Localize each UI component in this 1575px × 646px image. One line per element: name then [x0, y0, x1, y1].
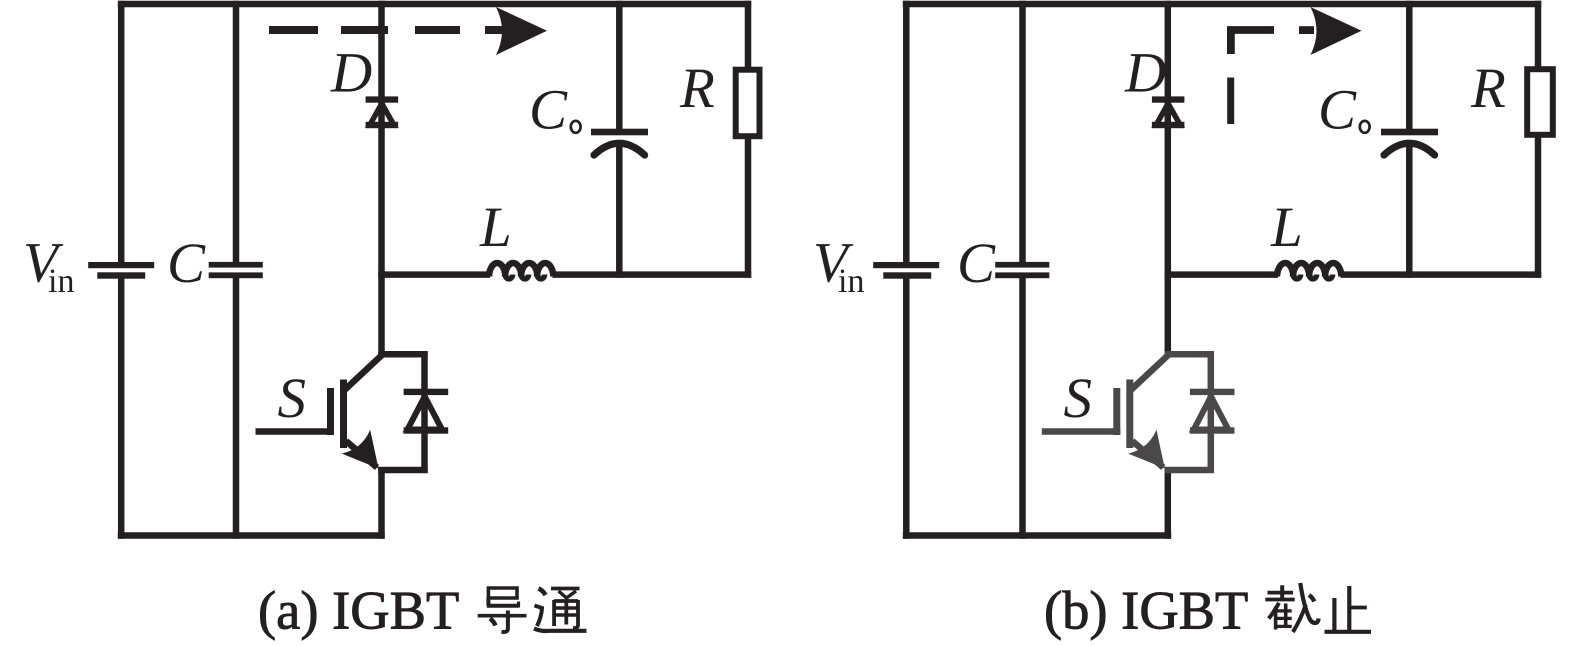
svg-text:D: D — [330, 42, 372, 105]
resistor R (b) — [1527, 69, 1553, 135]
wire: circuit (b) left edge lower (Vin branch) — [903, 277, 910, 539]
IGBT S (a) antiparallel diode triangle — [408, 397, 443, 430]
svg-text:C: C — [167, 232, 206, 295]
inductor L (b) coil — [1277, 263, 1341, 277]
svg-text:C: C — [957, 232, 996, 295]
current path dashed arrow (a) dash 3 — [415, 26, 460, 34]
capacitor C (a) top plate — [209, 262, 263, 268]
inductor L (b) curl 3 — [1325, 275, 1332, 279]
IGBT S (b) emitter diagonal — [1132, 441, 1163, 468]
inductor L (b) curl 1 — [1293, 275, 1300, 279]
caption (b) hanzi jie — [1265, 583, 1318, 632]
inductor L (b) curl 2 — [1309, 275, 1316, 279]
svg-text:C: C — [529, 79, 568, 142]
battery Vin (a) top long plate — [88, 262, 154, 268]
capacitor Co (b) straight plate — [1381, 129, 1438, 136]
current path dashed arrow (a) dash 2 — [341, 26, 388, 34]
wire: circuit (b) bottom rail — [903, 532, 1171, 539]
wire: circuit (b) middle rail right of inductor L — [1341, 271, 1542, 278]
IGBT S (a) freewheel branch vertical — [421, 351, 428, 473]
svg-text:C: C — [1318, 79, 1357, 142]
wire: circuit (a) left edge lower (Vin branch) — [118, 277, 125, 539]
diode D (a) triangle — [370, 104, 394, 126]
IGBT S (a) body bar — [340, 380, 347, 449]
current path dashed arrow (b) corner dash — [1231, 30, 1274, 54]
caption (a) hanzi tong — [534, 589, 587, 632]
IGBT S (a) antiparallel diode cathode bar — [404, 389, 449, 395]
wire: circuit (b) Co branch upper — [1406, 1, 1413, 131]
IGBT S (b) drawn gray (off state) — [1042, 351, 1214, 473]
inductor L (a) curl 1 — [505, 275, 512, 279]
IGBT S (a) gate lead wire — [256, 428, 335, 435]
wire: circuit (b) capacitor C branch upper — [1019, 1, 1026, 264]
wire: circuit (a) emitter branch vertical down to bottom rail — [378, 467, 385, 539]
wire: circuit (a) Co branch lower — [616, 146, 623, 278]
IGBT S (a) emitter diagonal — [346, 441, 377, 468]
capacitor Co (b) curved plate — [1384, 143, 1435, 155]
IGBT S (a) gate bar — [327, 388, 334, 435]
wire: circuit (b) emitter branch vertical — [1165, 467, 1172, 539]
current path dashed arrow (b) horizontal dash — [1299, 26, 1314, 34]
IGBT S (b) collector diagonal — [1130, 355, 1169, 391]
wire: circuit (a) middle rail right of inductor L — [553, 271, 752, 278]
capacitor C (b) top plate — [995, 262, 1049, 268]
capacitor Co (a) curved plate — [594, 143, 645, 155]
wire: circuit (b) right edge through R — [1535, 1, 1542, 278]
IGBT S (b) gate lead wire — [1042, 428, 1121, 435]
IGBT S (b) antiparallel diode cathode bar — [1190, 389, 1235, 395]
wire: circuit (b) diode branch vertical — [1165, 1, 1172, 357]
svg-text:L: L — [479, 196, 512, 259]
battery Vin (b) bottom short plate — [883, 272, 931, 278]
resistor R (a) — [736, 70, 760, 137]
svg-text:S: S — [278, 367, 307, 430]
svg-text:R: R — [1470, 57, 1506, 120]
IGBT S (b) emitter arrowhead — [1128, 430, 1179, 481]
current path dashed arrow (a) arrowhead — [496, 7, 547, 55]
IGBT S (a) collector diagonal — [344, 355, 383, 391]
inductor L (a) curl 3 — [537, 275, 544, 279]
svg-text:D: D — [1124, 42, 1166, 105]
current path dashed arrow (b) arrowhead — [1311, 7, 1362, 55]
svg-text:R: R — [679, 57, 715, 120]
diode D (a) cathode bar — [366, 96, 399, 102]
caption (b) hanzi zhi — [1325, 586, 1372, 632]
svg-text:(b) IGBT: (b) IGBT — [1044, 580, 1248, 641]
diode D (b) cathode bar — [1152, 96, 1185, 102]
IGBT S (a) — [256, 351, 428, 473]
wire: circuit (b) middle rail left of inductor L — [1165, 271, 1279, 278]
IGBT S (a) collector loop top wire — [378, 351, 428, 358]
IGBT S (b) antiparallel diode anode bar — [1190, 427, 1235, 433]
svg-text:in: in — [48, 263, 74, 300]
wire: circuit (a) right edge through R — [745, 1, 752, 278]
battery Vin (a) bottom short plate — [97, 272, 145, 278]
wire: circuit (b) Co branch lower — [1406, 146, 1413, 278]
wire: circuit (b) top rail — [903, 1, 1541, 8]
diode D (a) anode bar — [366, 122, 399, 128]
IGBT S (a) antiparallel diode anode bar — [404, 427, 449, 433]
capacitor C (a) bottom plate — [209, 272, 263, 278]
IGBT S (b) antiparallel diode triangle — [1194, 397, 1229, 430]
wire: circuit (a) Co branch upper — [616, 1, 623, 131]
wire: circuit (a) top rail — [118, 1, 751, 8]
wire: circuit (a) capacitor C branch upper — [233, 1, 240, 264]
svg-text:in: in — [838, 263, 864, 300]
IGBT S (a) emitter loop bottom wire — [378, 467, 428, 474]
diode D (b) anode bar — [1152, 122, 1185, 128]
IGBT S (b) body bar — [1126, 380, 1133, 449]
svg-text:L: L — [1270, 196, 1303, 259]
wire: circuit (a) bottom rail — [118, 532, 385, 539]
IGBT S (b) emitter loop bottom wire — [1165, 467, 1215, 474]
capacitor C (b) bottom plate — [995, 272, 1049, 278]
svg-text:S: S — [1064, 367, 1093, 430]
wire: circuit (b) capacitor C branch lower — [1019, 277, 1026, 539]
svg-text:(a) IGBT: (a) IGBT — [258, 580, 459, 641]
wire: circuit (a) diode branch vertical (through D down to IGBT collector) — [378, 1, 385, 357]
capacitor Co (a) straight plate — [591, 129, 648, 136]
wire: circuit (a) left edge upper (Vin branch) — [118, 1, 125, 264]
IGBT S (b) collector loop top wire — [1165, 351, 1215, 358]
wire: circuit (a) capacitor C branch lower — [233, 277, 240, 539]
IGBT S (b) gate bar — [1113, 388, 1120, 435]
diode D (b) triangle — [1156, 104, 1180, 126]
IGBT S (a) emitter arrowhead — [342, 430, 393, 481]
inductor L (a) coil — [489, 263, 553, 276]
wire: circuit (a) middle rail left of inductor L — [378, 271, 490, 278]
inductor L (a) curl 2 — [521, 275, 528, 279]
battery Vin (b) top long plate — [873, 262, 939, 268]
caption (a) hanzi dao — [478, 588, 527, 632]
current path dashed arrow (a) dash 1 — [269, 26, 318, 34]
IGBT S (b) freewheel branch vertical — [1208, 351, 1215, 473]
current path dashed arrow (a) dash 4 — [485, 26, 502, 34]
wire: circuit (b) left edge upper (Vin branch) — [903, 1, 910, 264]
current path dashed arrow (b) vertical dash — [1227, 78, 1234, 125]
